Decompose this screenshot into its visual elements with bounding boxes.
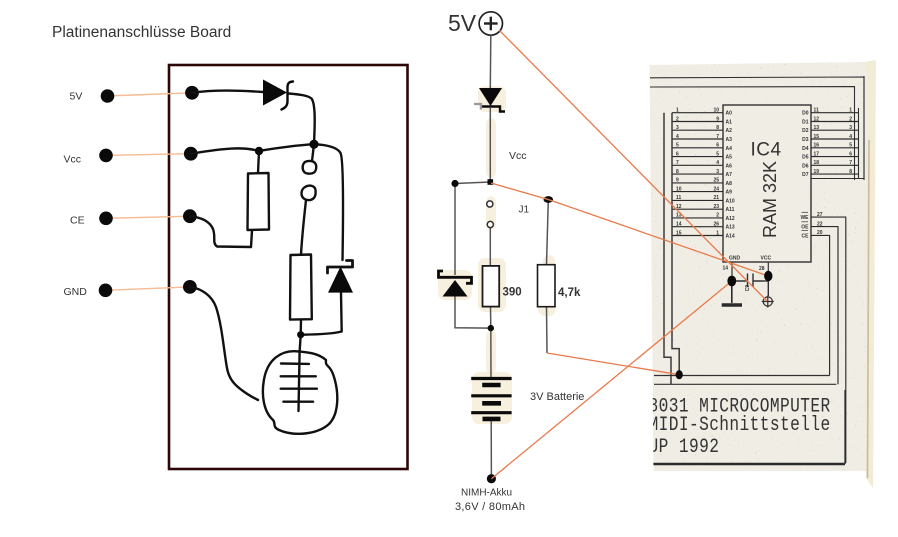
- svg-text:4: 4: [716, 160, 719, 166]
- wire pin A6: [672, 160, 732, 169]
- wire frame top line outer: [650, 77, 864, 180]
- svg-text:11: 11: [676, 195, 682, 201]
- svg-text:D3: D3: [802, 137, 809, 143]
- svg-text:23: 23: [713, 204, 719, 210]
- svg-text:1: 1: [849, 108, 852, 114]
- svg-text:14: 14: [723, 266, 729, 272]
- wire frame top line inner: [650, 87, 855, 180]
- svg-text:3: 3: [676, 125, 679, 131]
- jumper J1 pin 1: [487, 201, 493, 207]
- wire GND to blob: [190, 287, 258, 400]
- wire resistor R2 to node C: [300, 320, 301, 352]
- diode D2: [328, 267, 353, 293]
- svg-text:26: 26: [713, 222, 719, 228]
- node terminal CE board: [183, 209, 197, 223]
- svg-text:Vcc: Vcc: [64, 154, 82, 166]
- svg-text:NIMH-Akku: NIMH-Akku: [461, 488, 512, 499]
- svg-text:A14: A14: [726, 234, 735, 240]
- svg-text:A4: A4: [726, 146, 733, 152]
- wire pin D3: [802, 134, 858, 143]
- diode D3: [479, 88, 502, 106]
- power source circle V1: [479, 12, 502, 35]
- svg-text:D4: D4: [802, 146, 809, 152]
- wire pin A1: [672, 116, 732, 125]
- jumper loop 1: [303, 161, 317, 174]
- svg-text:3,6V / 80mAh: 3,6V / 80mAh: [455, 501, 525, 513]
- svg-text:A12: A12: [726, 216, 735, 222]
- wire diode to node A: [289, 94, 315, 145]
- wire pin A13: [672, 222, 735, 231]
- wire link GND: [106, 287, 190, 290]
- wire node B to resistor R1: [258, 151, 259, 173]
- svg-text:J1: J1: [519, 205, 530, 216]
- svg-text:8: 8: [676, 169, 679, 175]
- wire jumper to resistor R2: [301, 200, 306, 255]
- svg-text:5: 5: [676, 143, 679, 149]
- page edge shadow line: [868, 140, 870, 478]
- svg-text:27: 27: [817, 212, 823, 218]
- svg-text:13: 13: [814, 125, 820, 131]
- svg-text:IC4: IC4: [750, 140, 781, 161]
- diode D3 gray hook: [474, 104, 481, 110]
- svg-text:Vcc: Vcc: [509, 150, 527, 162]
- wire 4.7k down: [546, 307, 549, 353]
- node terminal 5V left: [101, 89, 115, 103]
- node terminal Vcc board: [184, 147, 198, 161]
- battery tick 1: [281, 362, 309, 365]
- svg-text:19: 19: [814, 169, 820, 175]
- node terminal GND left: [99, 284, 113, 298]
- wire pin A7: [672, 169, 732, 178]
- svg-text:5: 5: [849, 143, 852, 149]
- wire right data bus: [811, 76, 864, 179]
- wire pin A5: [672, 151, 732, 160]
- op-amp U IC4 RAM 32K chip body: [723, 105, 811, 262]
- svg-text:8: 8: [849, 169, 852, 175]
- svg-text:A7: A7: [726, 172, 733, 178]
- jumper loop 2: [302, 186, 316, 200]
- svg-text:390: 390: [503, 287, 522, 299]
- svg-text:18: 18: [814, 160, 820, 166]
- svg-text:14: 14: [676, 222, 682, 228]
- svg-text:C9: C9: [745, 285, 751, 292]
- wire bottom bus line A: [654, 375, 830, 377]
- svg-text:22: 22: [817, 221, 823, 227]
- svg-text:6: 6: [716, 143, 719, 149]
- svg-text:A8: A8: [726, 181, 733, 187]
- svg-text:A13: A13: [726, 225, 735, 231]
- wire O1 5V to plus symbol: [499, 30, 767, 301]
- svg-text:11: 11: [814, 108, 820, 114]
- node D junction: [488, 325, 494, 331]
- svg-text:A6: A6: [726, 163, 733, 169]
- wire pin A11: [672, 204, 735, 213]
- svg-text:17: 17: [814, 151, 820, 157]
- node terminal CE left: [99, 212, 113, 226]
- wire bottom border thick: [653, 463, 845, 465]
- svg-text:5: 5: [716, 151, 719, 157]
- wire pin A0: [672, 108, 732, 117]
- svg-text:RAM 32K: RAM 32K: [760, 161, 780, 238]
- node GND junction dot: [727, 276, 736, 287]
- svg-text:16: 16: [814, 143, 820, 149]
- wire pin A8: [672, 178, 732, 187]
- svg-text:CE: CE: [802, 233, 810, 239]
- diode D3 cathode bar: [481, 107, 505, 112]
- svg-text:8: 8: [716, 125, 719, 131]
- svg-text:A1: A1: [726, 120, 733, 126]
- svg-text:1: 1: [716, 230, 719, 236]
- wire link 5V: [108, 93, 193, 96]
- svg-text:A5: A5: [726, 155, 733, 161]
- svg-text:1: 1: [676, 108, 679, 114]
- svg-text:12: 12: [814, 116, 820, 122]
- battery tick 4: [283, 401, 313, 403]
- wire R390 to node D: [490, 307, 493, 378]
- svg-text:D5: D5: [802, 155, 809, 161]
- wire pin A12: [672, 213, 735, 222]
- wire bottom bus line B: [654, 383, 836, 385]
- diode D2 cathode bar: [328, 261, 353, 274]
- capacitor C9: [732, 274, 769, 297]
- board outline box: [169, 65, 408, 469]
- power plus symbol: [762, 296, 774, 308]
- svg-text:15: 15: [676, 230, 682, 236]
- node terminal Vcc left: [99, 149, 113, 163]
- wire pin D5: [802, 151, 858, 160]
- battery B1: [471, 379, 511, 419]
- wire pin A14: [672, 230, 735, 239]
- svg-text:A11: A11: [726, 207, 735, 213]
- svg-text:UP 1992: UP 1992: [649, 435, 720, 458]
- svg-text:28: 28: [759, 266, 765, 272]
- scanned page edge band: [864, 60, 876, 488]
- wire O2 Vcc node to VCC pin: [491, 183, 768, 276]
- wire left branch to zener: [454, 184, 456, 276]
- svg-text:9: 9: [716, 116, 719, 122]
- svg-text:VCC: VCC: [761, 256, 772, 262]
- svg-text:CE: CE: [70, 215, 85, 227]
- svg-text:10: 10: [676, 186, 682, 192]
- svg-text:D7: D7: [802, 172, 809, 178]
- node terminal GND board: [183, 280, 197, 294]
- wire zener to node D: [455, 296, 491, 328]
- resistor R390: [483, 266, 500, 307]
- wire 5V to diode: [192, 91, 263, 93]
- svg-text:Platinenanschlüsse Board: Platinenanschlüsse Board: [52, 24, 231, 41]
- wire node A to jumper: [312, 144, 314, 161]
- wire pin D6: [802, 160, 858, 169]
- svg-text:D1: D1: [802, 120, 809, 126]
- svg-text:4: 4: [676, 134, 679, 140]
- wire CE to resistor R1 bottom: [190, 216, 252, 247]
- wire pin CE: [802, 230, 830, 375]
- svg-text:9: 9: [676, 178, 679, 184]
- node terminal 5V board: [185, 86, 199, 100]
- svg-text:A3: A3: [726, 137, 733, 143]
- node C junction: [297, 331, 304, 338]
- wire O4 NIMH to GND dot: [491, 281, 731, 479]
- wire pin D0: [802, 108, 858, 117]
- wire pin D7: [802, 169, 858, 178]
- node GND pin 14: [723, 256, 741, 282]
- svg-text:A9: A9: [726, 190, 733, 196]
- wire J1 branch: [547, 200, 549, 265]
- wire D3 to Vcc node: [489, 108, 491, 182]
- node J1 dot: [544, 196, 554, 203]
- svg-text:GND: GND: [729, 256, 741, 262]
- wire pin A2: [672, 125, 732, 134]
- wire Vcc node left: [455, 182, 490, 184]
- scanned schematic paper background: [650, 62, 868, 471]
- wire pin A9: [672, 186, 732, 195]
- svg-text:20: 20: [817, 230, 823, 236]
- svg-text:4,7k: 4,7k: [558, 287, 581, 299]
- svg-text:5V: 5V: [70, 91, 83, 103]
- svg-text:D0: D0: [802, 111, 809, 117]
- resistor R1: [248, 173, 270, 230]
- label 8031 MICROCOMPUTER: [649, 395, 831, 459]
- zener diode Z1: [443, 280, 468, 297]
- diode D1: [263, 80, 287, 106]
- svg-text:2: 2: [676, 116, 679, 122]
- node VCC junction dot: [764, 271, 772, 281]
- svg-text:7: 7: [676, 160, 679, 166]
- svg-text:3V Batterie: 3V Batterie: [530, 391, 584, 403]
- zener diode Z1 bar: [439, 271, 472, 283]
- wire J1 to resistor R390: [489, 228, 491, 266]
- node bus dot: [676, 370, 683, 379]
- svg-text:10: 10: [713, 108, 719, 114]
- svg-text:7: 7: [716, 134, 719, 140]
- wire left address bus: [664, 113, 679, 385]
- svg-text:D6: D6: [802, 163, 809, 169]
- svg-text:4: 4: [849, 134, 852, 140]
- svg-text:6: 6: [676, 151, 679, 157]
- wire battery to NIMH node: [490, 420, 492, 479]
- svg-text:2: 2: [849, 116, 852, 122]
- svg-text:21: 21: [713, 195, 719, 201]
- svg-text:24: 24: [713, 186, 719, 192]
- node NIMH dot: [487, 474, 496, 483]
- wire pin WE: [800, 212, 845, 463]
- wire V1 to diode D3: [489, 35, 492, 88]
- svg-text:7: 7: [849, 160, 852, 166]
- wire O3 4.7k to bus dot: [547, 353, 679, 375]
- node B junction: [255, 147, 263, 155]
- wire pin OE: [801, 221, 838, 384]
- battery tick 3: [281, 388, 317, 390]
- wire pin A10: [672, 195, 735, 204]
- battery center wire: [299, 352, 300, 411]
- node VCC pin 28: [759, 256, 771, 277]
- svg-text:2: 2: [716, 213, 719, 219]
- wire link CE: [106, 216, 190, 218]
- svg-text:A2: A2: [726, 128, 733, 134]
- wire pin D4: [802, 143, 858, 152]
- svg-text:GND: GND: [64, 286, 88, 298]
- svg-text:A0: A0: [726, 111, 733, 117]
- wire pin D1: [802, 116, 858, 125]
- wire pin A3: [672, 134, 732, 143]
- svg-text:D2: D2: [802, 128, 809, 134]
- wire pin A4: [672, 143, 732, 152]
- battery blob outline: [263, 351, 337, 434]
- jumper J1 pin 2: [487, 221, 493, 227]
- resistor R2: [290, 255, 312, 320]
- node A junction: [309, 140, 318, 149]
- wire Vcc to node A: [191, 144, 314, 154]
- node Vcc junction: [488, 179, 494, 185]
- resistor R4k7: [538, 265, 556, 307]
- wire link Vcc: [106, 154, 191, 156]
- ground symbol: [722, 281, 742, 305]
- svg-text:3: 3: [849, 125, 852, 131]
- svg-text:25: 25: [713, 178, 719, 184]
- svg-text:6: 6: [849, 151, 852, 157]
- battery tick 2: [281, 375, 316, 377]
- wire pin D2: [802, 125, 858, 134]
- svg-text:15: 15: [814, 134, 820, 140]
- wire right border: [844, 390, 846, 464]
- svg-text:WE: WE: [800, 215, 809, 221]
- wire diode D2 to node C: [301, 293, 342, 335]
- node left branch dot: [451, 180, 458, 187]
- svg-text:MIDI-Schnittstelle: MIDI-Schnittstelle: [649, 413, 831, 436]
- diode D1 cathode hook: [282, 82, 294, 110]
- wire node A right branch down to D2: [314, 144, 343, 260]
- svg-text:5V: 5V: [448, 10, 477, 36]
- svg-text:A10: A10: [726, 198, 735, 204]
- decorative scan smudges (not labeled further): [478, 86, 506, 112]
- svg-text:OE: OE: [801, 225, 809, 231]
- svg-text:3: 3: [716, 169, 719, 175]
